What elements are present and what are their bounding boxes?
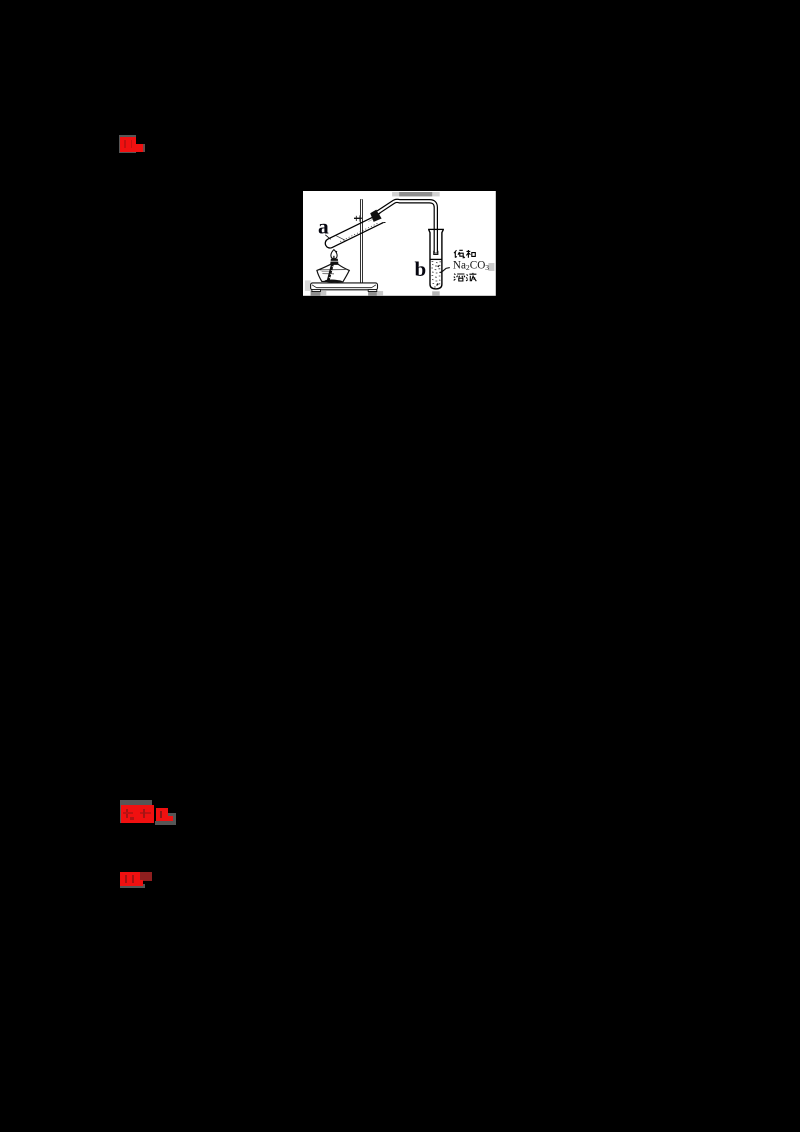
svg-text:a: a xyxy=(318,214,329,238)
svg-text:b: b xyxy=(414,257,426,281)
svg-text:Na2CO3: Na2CO3 xyxy=(453,259,489,272)
